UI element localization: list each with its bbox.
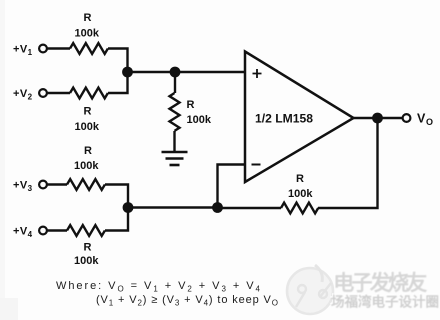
wire R2 up to summing node A — [108, 72, 128, 93]
svg-text:100k: 100k — [74, 255, 99, 267]
svg-text:100k: 100k — [75, 28, 100, 40]
wire R6 to node D — [218, 207, 282, 209]
svg-text:电子发烧友: 电子发烧友 — [333, 271, 427, 295]
svg-text:场福湾电子设计圈: 场福湾电子设计圈 — [331, 294, 439, 310]
resistor R3 100k (to ground) — [170, 93, 212, 131]
svg-text:R: R — [84, 242, 92, 254]
feedback wire output node down and left — [318, 118, 378, 208]
input terminal +V2 — [13, 88, 47, 102]
output terminal Vo — [403, 112, 434, 128]
ground symbol — [162, 152, 188, 165]
wire R3 to ground — [173, 131, 175, 152]
watermark logo — [287, 265, 333, 314]
wire op-amp output to Vo terminal — [354, 117, 403, 119]
svg-text:100k: 100k — [75, 121, 100, 133]
wire node D up to op-amp - input — [218, 165, 246, 208]
wire node B down to R3 — [174, 72, 176, 93]
wire node A to op-amp + input — [128, 71, 246, 73]
svg-text:1/2 LM158: 1/2 LM158 — [255, 112, 313, 126]
op-amp U1 1/2 LM158 — [245, 52, 354, 183]
svg-text:R: R — [296, 173, 304, 185]
resistor R5 100k (V4 input) — [67, 225, 105, 267]
wire R4 to node C — [105, 185, 128, 208]
wire node C to node D — [128, 206, 218, 208]
wire R1 to summing node A — [108, 49, 128, 73]
watermark text line 2 — [330, 292, 439, 310]
watermark text line 1 — [332, 270, 427, 295]
resistor R1 100k (V1 input) — [70, 12, 108, 54]
node B junction dot (ground resistor tap) — [170, 67, 181, 78]
svg-text:100k: 100k — [288, 188, 313, 200]
node A junction dot — [122, 67, 133, 78]
wire V4 terminal to R5 — [47, 229, 67, 231]
svg-text:R: R — [187, 99, 195, 111]
svg-text:(V1 + V2) ≥ (V3 + V4) to keep: (V1 + V2) ≥ (V3 + V4) to keep VO — [96, 294, 278, 308]
svg-text:R: R — [84, 106, 92, 118]
wire V1 terminal to R1 — [47, 47, 70, 49]
svg-text:100k: 100k — [187, 114, 212, 126]
wire V2 terminal to R2 — [47, 92, 70, 94]
input terminal +V4 — [13, 226, 47, 240]
resistor R2 100k (V2 input) — [70, 88, 108, 133]
node C junction dot — [123, 202, 134, 213]
svg-text:100k: 100k — [74, 160, 99, 172]
input terminal +V1 — [13, 44, 47, 58]
svg-text:R: R — [84, 145, 92, 157]
node E output junction dot — [372, 113, 383, 124]
resistor R6 100k (feedback) — [281, 173, 318, 213]
wire R5 up to node C — [105, 208, 128, 231]
resistor R4 100k (V3 input) — [67, 145, 105, 190]
wire V3 terminal to R4 — [47, 183, 67, 185]
svg-text:R: R — [84, 12, 92, 24]
node D junction dot (inverting input tap) — [212, 202, 223, 213]
input terminal +V3 — [13, 180, 47, 194]
